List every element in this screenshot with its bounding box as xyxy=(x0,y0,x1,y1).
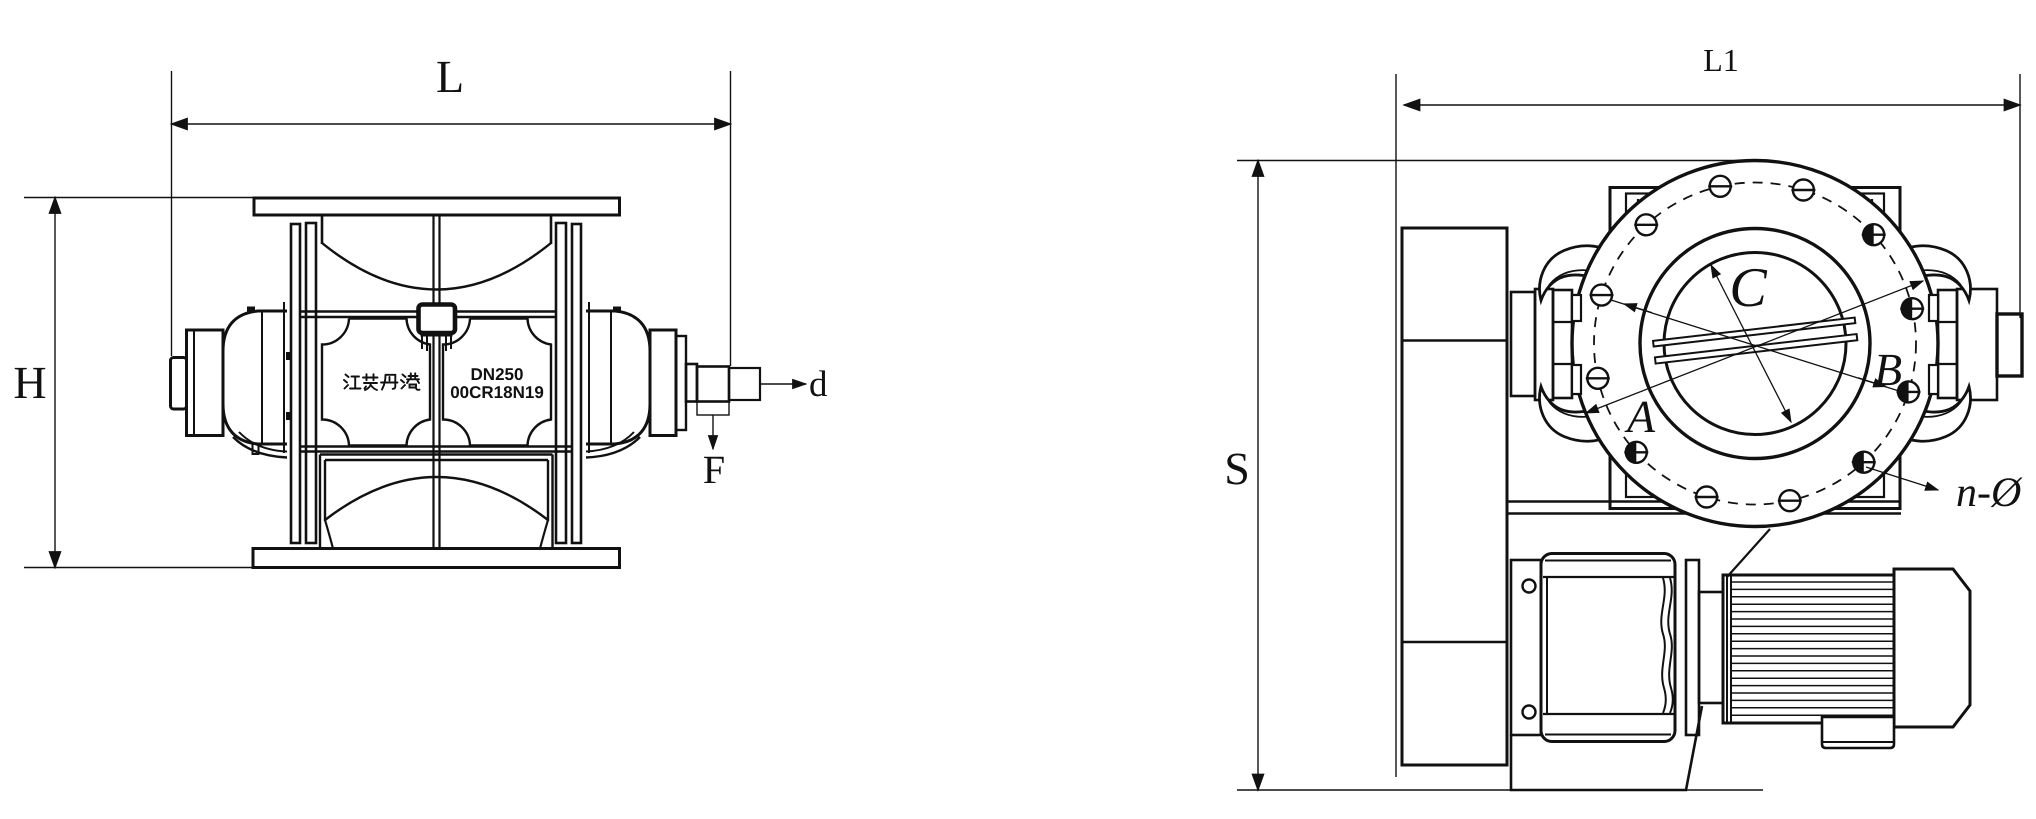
bolt hole shading half-moons xyxy=(1626,224,1912,473)
gearbox hinge pins xyxy=(1523,580,1536,593)
gearbox wavy cover edge xyxy=(1661,578,1666,713)
dome bolts xyxy=(247,307,255,312)
top flange plate xyxy=(254,198,620,215)
shaft block xyxy=(697,367,729,402)
right bearing dome xyxy=(586,311,650,444)
svg-text:L: L xyxy=(436,51,464,102)
rotor right panel xyxy=(443,319,551,446)
right thin plate xyxy=(676,336,686,430)
top hopper curve xyxy=(322,243,551,290)
gearbox bracket xyxy=(1511,560,1541,735)
dimension L xyxy=(172,71,731,366)
bolt circle dashed xyxy=(1594,183,1916,505)
clamp crescent upper-left xyxy=(1540,246,1614,301)
left end cap xyxy=(171,358,187,410)
svg-text:S: S xyxy=(1224,443,1250,494)
d arrow xyxy=(760,383,806,385)
rotor shaft vertical xyxy=(434,215,440,548)
clamp tabs over rim xyxy=(1572,295,1938,394)
svg-text:L1: L1 xyxy=(1703,42,1739,78)
right end cap xyxy=(1997,314,2022,376)
svg-text:F: F xyxy=(703,447,725,492)
nameplate chinese glyphs (vector) xyxy=(344,373,420,390)
bore circle xyxy=(1664,253,1846,435)
dimension H xyxy=(24,198,256,568)
motor terminal box xyxy=(1822,717,1894,748)
bolt holes xyxy=(1586,176,1924,511)
top hopper walls xyxy=(321,215,324,244)
svg-text:H: H xyxy=(13,357,46,408)
body square behind flange xyxy=(1610,188,1900,509)
motor output flange xyxy=(1686,560,1699,735)
bottom hopper box xyxy=(320,455,553,549)
right shaft blocks xyxy=(1938,290,1957,398)
bracket shelf xyxy=(1507,500,1901,503)
motor finned body xyxy=(1723,575,1894,723)
left shaft blocks xyxy=(1511,292,1535,396)
inlet chute tall box xyxy=(1402,228,1507,765)
right column bars xyxy=(556,223,566,543)
shaft coupling box xyxy=(419,305,456,334)
pedestal under gearbox xyxy=(1511,706,1702,790)
flange disc xyxy=(1572,161,1938,527)
svg-text:00CR18N19: 00CR18N19 xyxy=(450,383,544,402)
glyph gang xyxy=(401,375,406,389)
n-diameter leader xyxy=(1866,467,1938,490)
svg-text:A: A xyxy=(1624,391,1656,442)
rotor vane strips xyxy=(1653,318,1857,364)
gearbox body xyxy=(1541,554,1675,742)
F arrow xyxy=(712,415,714,449)
shaft end xyxy=(729,368,760,400)
left column bars xyxy=(291,224,300,543)
bottom hopper arch xyxy=(325,477,548,520)
left collar band xyxy=(233,437,287,458)
bottom flange plate xyxy=(253,549,620,568)
svg-text:C: C xyxy=(1729,257,1767,319)
dim line C xyxy=(1711,265,1791,422)
chain guard diagonal xyxy=(1727,529,1770,577)
svg-text:DN250: DN250 xyxy=(471,365,524,384)
motor end bell xyxy=(1894,569,1970,727)
chamber bottom line xyxy=(300,447,573,452)
motor shaft neck xyxy=(1699,592,1723,703)
glyph jiang xyxy=(344,375,349,389)
nameplate text left xyxy=(450,365,544,402)
dim line B xyxy=(1611,300,1899,391)
right bearing cover xyxy=(650,330,676,436)
shaft step xyxy=(686,364,697,402)
glyph dan xyxy=(381,375,398,390)
left bearing dome xyxy=(223,311,287,444)
svg-text:d: d xyxy=(809,364,828,405)
dimension L1 xyxy=(1396,74,2020,777)
glyph su xyxy=(363,374,378,380)
dim line A xyxy=(1586,281,1923,413)
right collar band xyxy=(586,437,640,458)
coupling comb ticks xyxy=(422,336,451,351)
dimension S xyxy=(1237,161,1763,791)
rotor left panel xyxy=(322,319,430,446)
left bearing cover xyxy=(187,330,224,436)
F box xyxy=(697,402,729,416)
mid horizontal frame xyxy=(300,312,556,318)
svg-text:n-Ø: n-Ø xyxy=(1956,470,2023,516)
raised face ring xyxy=(1640,229,1870,459)
